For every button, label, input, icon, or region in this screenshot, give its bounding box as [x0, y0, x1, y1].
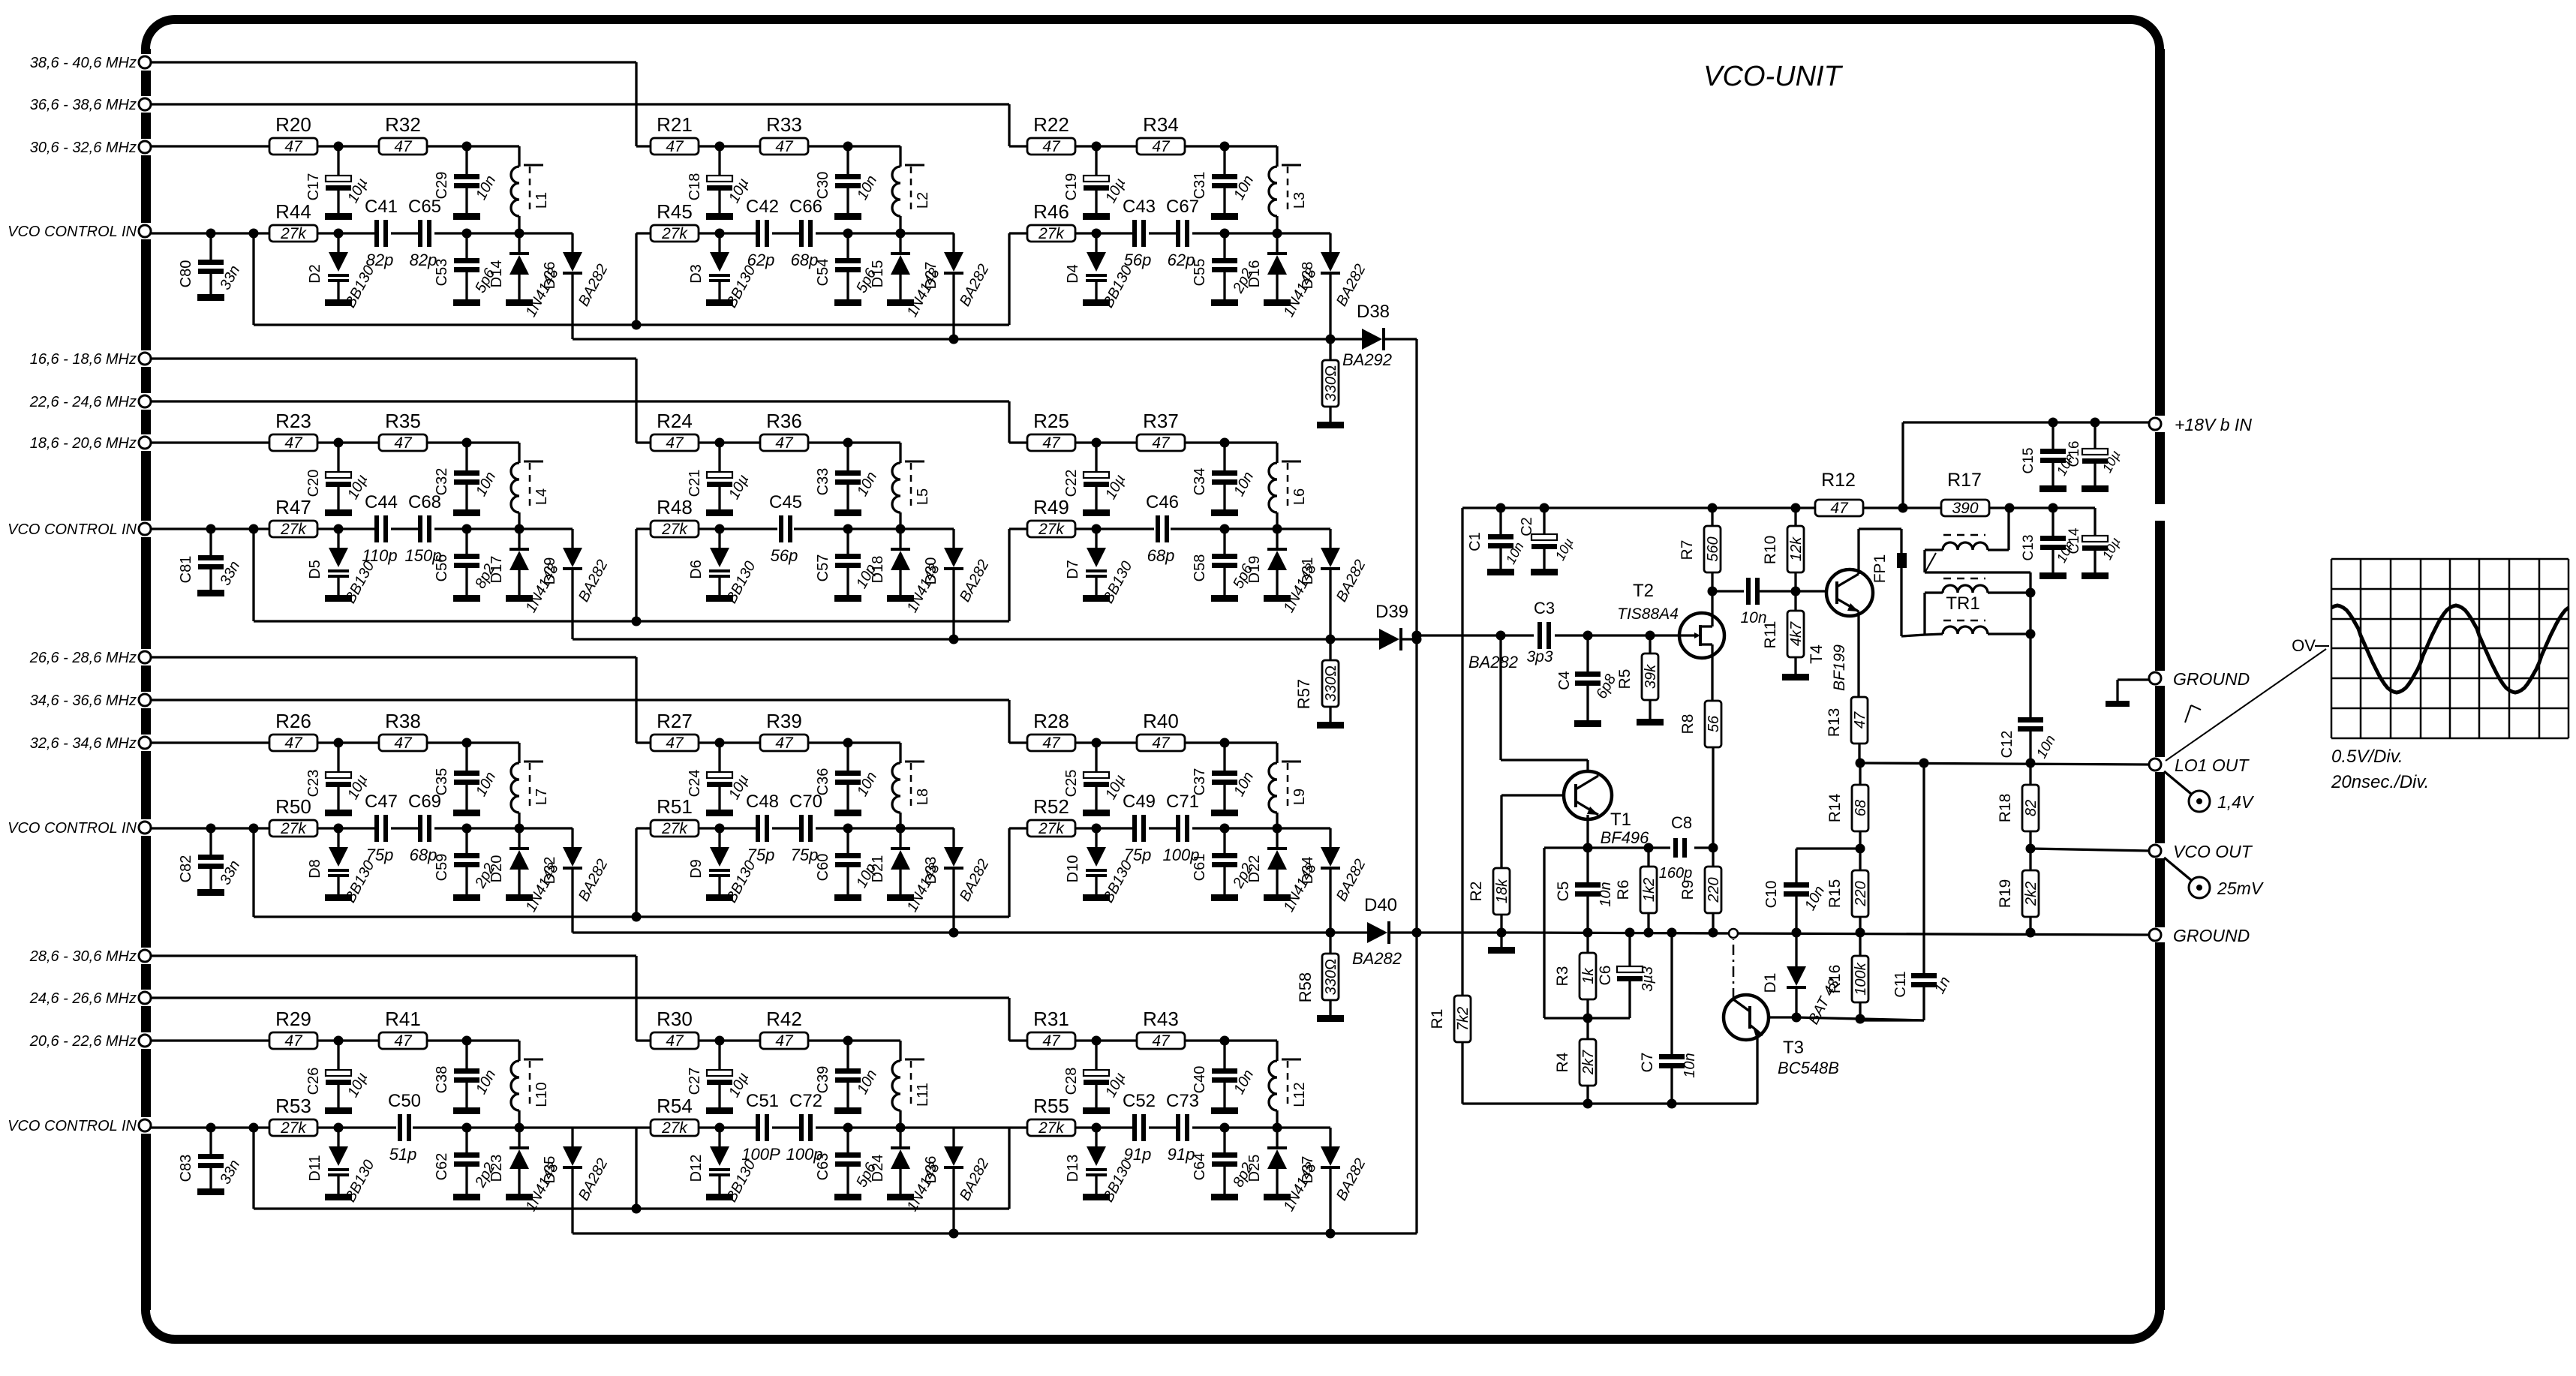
svg-text:27k: 27k	[661, 1119, 688, 1137]
svg-text:68: 68	[1853, 800, 1869, 816]
resistor R14	[1826, 759, 1869, 849]
wire	[699, 1039, 760, 1041]
svg-text:C3: C3	[1534, 599, 1555, 617]
terminal 36,6 - 38,6 MHz	[30, 97, 151, 113]
node	[1496, 631, 1506, 641]
svg-text:D34: D34	[1300, 857, 1316, 885]
svg-text:27k: 27k	[1038, 225, 1065, 242]
label scope scale	[2331, 747, 2429, 792]
svg-text:C70: C70	[789, 792, 822, 812]
terminal 18,6 - 20,6 MHz	[30, 435, 151, 452]
wire	[1225, 1126, 1330, 1128]
node	[1898, 503, 1908, 513]
svg-text:4k7: 4k7	[1788, 621, 1805, 646]
svg-text:R20: R20	[275, 113, 311, 136]
diode D24	[870, 1128, 943, 1214]
wire	[1009, 1126, 1027, 1128]
resistor R10	[1762, 508, 1805, 591]
wire	[1901, 568, 1925, 636]
wire	[151, 441, 269, 443]
capacitor C13	[2021, 508, 2078, 579]
svg-text:27k: 27k	[1038, 820, 1065, 837]
svg-text:L7: L7	[534, 789, 550, 805]
capacitor C15	[2021, 422, 2078, 492]
wire	[467, 1126, 573, 1128]
node	[843, 142, 853, 152]
terminal 30,6 - 32,6 MHz	[30, 140, 151, 156]
capacitor C47	[365, 792, 398, 864]
diode D34	[1300, 828, 1369, 933]
svg-text:C64: C64	[1192, 1153, 1208, 1181]
wire	[317, 145, 379, 147]
svg-text:R12: R12	[1821, 470, 1856, 491]
wire	[573, 335, 1362, 344]
wire	[1501, 795, 1564, 868]
node	[843, 738, 853, 748]
wire	[317, 441, 379, 443]
svg-text:+18V b IN: +18V b IN	[2175, 415, 2252, 434]
svg-text:R1: R1	[1429, 1009, 1446, 1029]
svg-text:R6: R6	[1615, 880, 1632, 900]
svg-text:R19: R19	[1997, 879, 2014, 909]
node	[2048, 503, 2058, 513]
capacitor C65	[408, 197, 441, 269]
resistor R48	[651, 496, 699, 538]
wire	[1185, 743, 1277, 828]
wire	[848, 527, 954, 530]
svg-text:47: 47	[666, 735, 684, 752]
wire	[427, 443, 519, 529]
node	[206, 824, 216, 834]
svg-text:27k: 27k	[280, 521, 307, 538]
wire	[636, 1039, 651, 1041]
resistor R15	[1826, 849, 1869, 933]
svg-text:C58: C58	[1192, 554, 1208, 582]
wire	[808, 146, 900, 233]
node	[1791, 587, 1801, 596]
svg-text:30,6 - 32,6 MHz: 30,6 - 32,6 MHz	[30, 140, 137, 156]
filter FP1	[1871, 553, 1907, 583]
wire	[1225, 527, 1330, 530]
node	[1092, 229, 1102, 239]
svg-text:C43: C43	[1123, 197, 1156, 217]
svg-text:C60: C60	[815, 854, 831, 882]
svg-text:C46: C46	[1146, 492, 1179, 512]
svg-text:C72: C72	[789, 1091, 822, 1111]
svg-text:2k2: 2k2	[2023, 882, 2039, 906]
wire	[699, 527, 848, 530]
diode D1	[1762, 933, 1843, 1027]
svg-text:R22: R22	[1033, 113, 1069, 136]
svg-text:C38: C38	[434, 1066, 450, 1094]
wire	[1796, 847, 1860, 849]
capacitor C39	[815, 1041, 880, 1114]
node	[715, 738, 725, 748]
node	[1583, 1014, 1593, 1023]
svg-text:20nsec./Div.: 20nsec./Div.	[2331, 772, 2429, 792]
svg-text:47: 47	[1152, 138, 1171, 155]
wire	[151, 956, 636, 1041]
inductor L12	[1269, 1059, 1308, 1110]
svg-text:39k: 39k	[1643, 664, 1659, 689]
capacitor C80	[178, 233, 243, 301]
wire	[151, 657, 636, 743]
svg-text:C15: C15	[2021, 448, 2036, 474]
svg-text:D22: D22	[1246, 855, 1263, 883]
svg-text:BA282: BA282	[1352, 949, 1402, 968]
capacitor C14	[2067, 508, 2124, 579]
svg-text:L10: L10	[534, 1082, 550, 1107]
wire	[252, 828, 254, 917]
wire	[636, 1126, 651, 1128]
svg-text:R52: R52	[1033, 795, 1069, 818]
capacitor C44	[362, 492, 398, 565]
capacitor C1	[1467, 508, 1527, 575]
capacitor C3	[1526, 599, 1555, 665]
node	[1092, 142, 1102, 152]
node	[715, 824, 725, 834]
svg-text:R47: R47	[275, 496, 311, 518]
svg-text:3µ3: 3µ3	[1640, 966, 1656, 992]
resistor R51	[651, 795, 699, 837]
resistor R18	[1997, 763, 2039, 849]
svg-text:C50: C50	[388, 1091, 421, 1111]
wire	[848, 1126, 954, 1128]
svg-text:560: 560	[1705, 536, 1721, 561]
node	[1092, 1036, 1102, 1046]
varactor D4	[1065, 233, 1136, 311]
capacitor C37	[1192, 743, 1257, 816]
svg-text:C7: C7	[1639, 1053, 1656, 1073]
svg-text:1,4V: 1,4V	[2217, 792, 2255, 812]
svg-text:R13: R13	[1826, 708, 1843, 738]
svg-text:24,6 - 26,6 MHz: 24,6 - 26,6 MHz	[29, 990, 137, 1007]
diode D15	[870, 233, 943, 320]
diode D33	[923, 828, 993, 933]
wire	[1185, 443, 1277, 529]
node	[843, 524, 853, 534]
svg-text:VCO CONTROL IN: VCO CONTROL IN	[8, 521, 137, 538]
capacitor C31	[1192, 146, 1257, 220]
svg-text:R38: R38	[385, 710, 421, 732]
wire	[151, 359, 636, 443]
svg-text:GROUND: GROUND	[2173, 669, 2250, 689]
capacitor C23	[305, 743, 371, 816]
svg-text:47: 47	[1042, 434, 1061, 452]
resistor R40	[1137, 710, 1185, 752]
svg-text:68p: 68p	[791, 251, 819, 269]
svg-text:75p: 75p	[366, 846, 394, 864]
svg-text:D4: D4	[1065, 264, 1081, 284]
svg-text:L1: L1	[534, 192, 550, 209]
node	[1273, 824, 1282, 834]
svg-text:D20: D20	[488, 855, 505, 883]
svg-text:R18: R18	[1997, 794, 2014, 823]
node	[462, 1036, 472, 1046]
svg-text:100P: 100P	[741, 1145, 780, 1164]
node	[334, 1036, 344, 1046]
node	[462, 229, 472, 239]
terminal VCO CONTROL IN	[8, 224, 151, 240]
svg-text:38,6 - 40,6 MHz: 38,6 - 40,6 MHz	[30, 55, 137, 71]
node	[1708, 587, 1718, 596]
svg-text:27k: 27k	[661, 521, 688, 538]
node	[896, 1123, 906, 1133]
wire	[1075, 441, 1137, 443]
svg-text:D37: D37	[1300, 1156, 1316, 1184]
wire	[1501, 635, 1588, 771]
svg-text:27k: 27k	[661, 820, 688, 837]
svg-text:47: 47	[775, 735, 794, 752]
resistor R52	[1027, 795, 1075, 837]
node	[1273, 1123, 1282, 1133]
capacitor C34	[1192, 443, 1257, 516]
svg-text:D36: D36	[923, 1156, 939, 1184]
svg-text:C29: C29	[434, 172, 450, 200]
resistor R8	[1679, 701, 1722, 848]
inductor L4	[511, 461, 550, 512]
svg-text:C27: C27	[687, 1068, 703, 1095]
svg-text:R17: R17	[1947, 470, 1982, 491]
diode D17	[488, 529, 562, 615]
resistor R4	[1554, 1018, 1597, 1104]
diode D23	[488, 1128, 562, 1214]
node	[1708, 503, 1718, 513]
terminal GROUND	[2149, 669, 2250, 689]
svg-text:C26: C26	[305, 1068, 322, 1095]
resistor R24	[651, 410, 699, 452]
node	[334, 438, 344, 448]
varactor D10	[1065, 828, 1136, 906]
wire	[317, 741, 379, 744]
wire	[1711, 591, 1713, 701]
svg-text:D26: D26	[542, 262, 558, 290]
capacitor C19	[1063, 146, 1129, 220]
node	[1092, 524, 1102, 534]
capacitor C24	[687, 743, 752, 816]
svg-text:32,6 - 34,6 MHz: 32,6 - 34,6 MHz	[30, 735, 137, 752]
waveform	[2331, 605, 2568, 693]
capacitor C45	[769, 492, 802, 565]
svg-text:BF199: BF199	[1831, 644, 1848, 691]
wire	[1859, 759, 2149, 768]
svg-text:82p: 82p	[366, 251, 394, 269]
wire	[151, 1126, 269, 1128]
resistor R34	[1137, 113, 1185, 155]
svg-text:R44: R44	[275, 200, 311, 223]
node	[843, 229, 853, 239]
svg-text:C41: C41	[365, 197, 398, 217]
varactor D9	[688, 828, 759, 906]
terminal GROUND	[2149, 926, 2250, 945]
capacitor C59	[434, 828, 498, 901]
svg-text:D32: D32	[542, 857, 558, 885]
svg-text:L11: L11	[915, 1083, 931, 1107]
svg-text:R14: R14	[1826, 793, 1844, 822]
node	[1644, 843, 1654, 938]
svg-text:D28: D28	[1300, 262, 1316, 290]
svg-text:47: 47	[1152, 1032, 1171, 1050]
svg-text:R8: R8	[1679, 714, 1697, 735]
transformer TR1	[1925, 508, 2036, 639]
diode D25	[1246, 1128, 1320, 1214]
node	[896, 824, 906, 834]
svg-text:51p: 51p	[389, 1145, 417, 1164]
svg-text:47: 47	[1042, 735, 1061, 752]
svg-text:R23: R23	[275, 410, 311, 432]
capacitor C46	[1146, 492, 1179, 565]
node	[249, 1123, 259, 1133]
diode D29	[542, 529, 612, 639]
wire	[636, 527, 651, 530]
resistor R11	[1762, 591, 1809, 680]
resistor R46	[1027, 200, 1075, 242]
svg-text:C67: C67	[1166, 197, 1199, 217]
svg-text:R27: R27	[657, 710, 693, 732]
svg-text:D11: D11	[307, 1155, 323, 1181]
svg-text:D27: D27	[923, 262, 939, 290]
wire	[699, 827, 848, 829]
wire	[151, 700, 1009, 743]
svg-text:R4: R4	[1554, 1052, 1571, 1072]
svg-text:D19: D19	[1246, 556, 1263, 584]
diode D22	[1246, 828, 1320, 915]
svg-text:D30: D30	[923, 557, 939, 585]
wire	[573, 928, 1367, 938]
wire	[1417, 933, 2149, 935]
wire	[151, 145, 269, 147]
svg-text:R24: R24	[657, 410, 693, 432]
node	[334, 1123, 344, 1133]
node	[515, 524, 525, 534]
svg-text:18,6 - 20,6 MHz: 18,6 - 20,6 MHz	[30, 435, 137, 452]
svg-text:OV: OV	[2292, 636, 2316, 655]
wire	[254, 233, 1009, 330]
resistor R23	[269, 410, 317, 452]
svg-text:C51: C51	[746, 1091, 779, 1111]
svg-text:C13: C13	[2021, 535, 2036, 561]
svg-text:D16: D16	[1246, 260, 1263, 288]
varactor D2	[307, 233, 378, 311]
svg-text:75p: 75p	[747, 846, 775, 864]
wire	[1412, 631, 1682, 641]
svg-text:D3: D3	[688, 264, 705, 284]
svg-text:VCO CONTROL IN: VCO CONTROL IN	[8, 820, 137, 837]
node	[715, 1123, 725, 1133]
wire	[1185, 1041, 1277, 1128]
svg-text:C56: C56	[434, 554, 450, 582]
node	[1220, 738, 1230, 748]
svg-text:R26: R26	[275, 710, 311, 732]
varactor D12	[688, 1128, 759, 1205]
capacitor C10	[1763, 849, 1828, 933]
svg-text:D2: D2	[307, 264, 323, 284]
svg-text:R50: R50	[275, 795, 311, 818]
resistor R29	[269, 1008, 317, 1050]
svg-text:VCO CONTROL IN: VCO CONTROL IN	[8, 224, 137, 240]
svg-text:C71: C71	[1166, 792, 1199, 812]
node	[896, 524, 906, 534]
capacitor C28	[1063, 1041, 1129, 1114]
wire	[427, 743, 519, 828]
inductor L10	[511, 1059, 550, 1110]
svg-text:18k: 18k	[1494, 879, 1510, 903]
svg-text:D35: D35	[542, 1156, 558, 1184]
node	[1092, 738, 1102, 748]
node	[715, 142, 725, 152]
svg-text:BF496: BF496	[1601, 828, 1650, 847]
svg-text:L2: L2	[915, 192, 931, 209]
resistor R13	[1826, 697, 1868, 763]
capacitor C81	[178, 529, 243, 596]
resistor R5	[1616, 635, 1664, 726]
resistor R43	[1137, 1008, 1185, 1050]
capacitor C30	[815, 146, 880, 220]
node	[1856, 844, 1865, 854]
resistor R32	[379, 113, 427, 155]
capacitor C11	[1892, 763, 1954, 1020]
varactor D3	[688, 233, 759, 311]
svg-text:R45: R45	[657, 200, 693, 223]
svg-text:VCO CONTROL IN: VCO CONTROL IN	[8, 1118, 137, 1134]
terminal VCO CONTROL IN	[8, 820, 151, 837]
svg-text:D38: D38	[1357, 302, 1390, 322]
svg-text:47: 47	[1852, 711, 1868, 729]
wire	[1544, 848, 1630, 1018]
diode D36	[923, 1128, 993, 1233]
svg-text:C59: C59	[434, 854, 450, 882]
capacitor C22	[1063, 443, 1129, 516]
wire	[848, 827, 954, 829]
svg-text:1k2: 1k2	[1641, 878, 1658, 902]
terminal VCO OUT	[2149, 842, 2253, 861]
svg-text:L3: L3	[1291, 192, 1308, 209]
capacitor C60	[815, 828, 879, 901]
svg-text:R25: R25	[1033, 410, 1069, 432]
wire	[151, 827, 269, 829]
capacitor C61	[1192, 828, 1256, 901]
terminal VCO CONTROL IN	[8, 1118, 151, 1134]
capacitor C58	[1192, 529, 1257, 602]
resistor R6	[1615, 848, 1658, 933]
svg-text:47: 47	[1042, 138, 1061, 155]
wire	[1009, 827, 1027, 829]
node	[1220, 1036, 1230, 1046]
capacitor C66	[789, 197, 822, 269]
svg-text:R31: R31	[1033, 1008, 1069, 1030]
svg-text:C23: C23	[305, 770, 322, 798]
node	[206, 1123, 216, 1133]
node	[249, 524, 259, 534]
inductor L7	[511, 762, 550, 813]
node	[462, 438, 472, 448]
diode D18	[870, 529, 943, 615]
terminal 26,6 - 28,6 MHz	[29, 650, 151, 666]
node	[249, 229, 259, 239]
capacitor C5	[1555, 848, 1614, 933]
wire	[467, 232, 573, 234]
svg-text:L12: L12	[1291, 1082, 1308, 1107]
node	[1791, 503, 1801, 513]
wire	[1009, 741, 1027, 744]
ground	[2106, 680, 2149, 707]
node	[1220, 229, 1230, 239]
ground	[1488, 933, 1515, 954]
svg-text:C66: C66	[789, 197, 822, 217]
svg-text:47: 47	[775, 434, 794, 452]
svg-text:R28: R28	[1033, 710, 1069, 732]
svg-text:D40: D40	[1364, 895, 1397, 915]
